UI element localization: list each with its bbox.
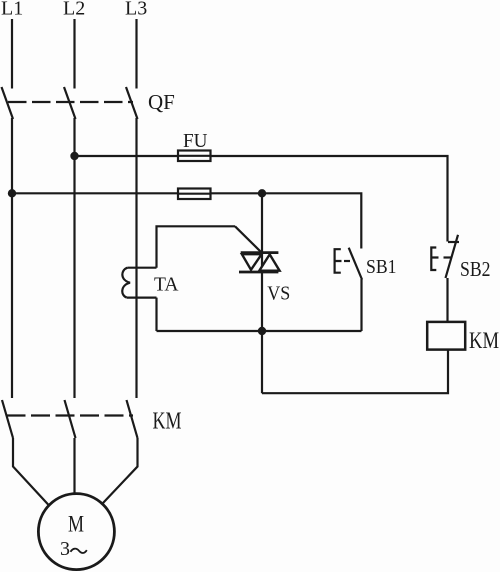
pushbutton SB1 actuator dash (344, 260, 350, 262)
svg-text:L1: L1 (1, 0, 23, 20)
wire motor lead 2 (73, 438, 75, 494)
thyristor VS bottom bar (239, 271, 278, 274)
thyristor VS left triangle (242, 254, 262, 270)
svg-text:SB2: SB2 (460, 257, 491, 281)
svg-text:TA: TA (154, 273, 179, 295)
wire triac branch vertical (261, 193, 263, 393)
pushbutton SB2 actuator dash (444, 256, 452, 258)
node junction dot on L1 (control tap 2) (8, 189, 16, 197)
wire TA gate loop top (157, 226, 236, 267)
svg-text:3: 3 (60, 538, 70, 560)
pushbutton SB2 contact tick (448, 241, 459, 243)
wire triac gate diagonal (235, 226, 261, 252)
wire motor lead 3 (103, 438, 138, 503)
contactor KM pole 3 blade (127, 400, 138, 438)
contactor KM pole 2 blade (65, 400, 76, 438)
wire control line 1 (L2 to SB2 branch) (75, 156, 448, 242)
wire L3 middle feeder (135, 118, 137, 398)
wire control line 2 (L1 to SB1 branch) (12, 193, 361, 248)
svg-text:KM: KM (153, 409, 182, 435)
pushbutton SB2 blade (446, 235, 459, 278)
svg-text:M: M (68, 511, 84, 536)
pushbutton SB1 lower lead (360, 279, 362, 331)
wire loop bottom horizontal (157, 330, 362, 332)
breaker QF pole 1 blade (2, 87, 14, 119)
wire L2 upper feeder (73, 19, 75, 89)
wire L3 upper feeder (135, 19, 137, 89)
wire coil bottom return (262, 350, 448, 394)
wire motor lead 1 (13, 438, 50, 507)
wire L1 upper feeder (11, 19, 13, 89)
wire L1 middle feeder (11, 118, 13, 398)
wire TA loop bottom left (155, 298, 157, 331)
transformer TA bottom lead (127, 297, 157, 299)
breaker QF pole 2 blade (64, 87, 76, 119)
fuse FU2 body (178, 189, 211, 200)
transformer TA top lead (127, 267, 156, 269)
node junction dot at triac anode (258, 189, 266, 197)
pushbutton SB2 lower lead (446, 278, 448, 322)
transformer TA secondary arcs (122, 268, 130, 298)
contactor KM pole 1 blade (2, 400, 13, 438)
svg-text:QF: QF (148, 90, 175, 114)
svg-text:L2: L2 (63, 0, 85, 20)
motor M circle (38, 494, 114, 570)
pushbutton SB2 actuator E (431, 248, 438, 271)
thyristor VS top bar (241, 251, 279, 254)
svg-text:SB1: SB1 (366, 257, 397, 278)
svg-text:L3: L3 (125, 0, 147, 20)
svg-text:KM: KM (469, 328, 499, 353)
pushbutton SB1 blade (349, 248, 362, 280)
wire L2 middle feeder (73, 118, 75, 398)
thyristor VS right triangle (259, 254, 279, 270)
node junction dot on L2 (control tap 1) (70, 152, 78, 160)
contactor KM linkage dashed line (7, 414, 134, 416)
fuse FU1 body (178, 151, 211, 162)
node junction dot at triac cathode (258, 327, 266, 335)
pushbutton SB1 actuator E (335, 249, 342, 273)
breaker QF pole 3 blade (126, 87, 138, 119)
svg-text:FU: FU (183, 130, 208, 152)
contactor coil KM body (427, 322, 465, 350)
svg-text:VS: VS (267, 282, 290, 304)
breaker QF linkage dashed line (8, 101, 133, 103)
